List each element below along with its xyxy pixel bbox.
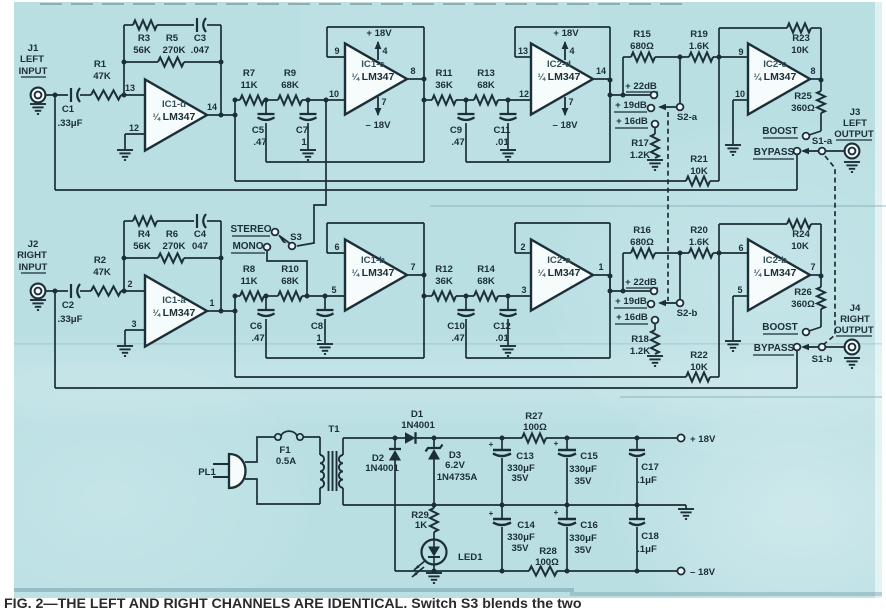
wire IC2-d output xyxy=(593,78,613,83)
svg-text:1K: 1K xyxy=(415,520,427,531)
wire R2 to pin node xyxy=(121,290,145,292)
svg-text:C10: C10 xyxy=(447,321,465,332)
svg-text:C12: C12 xyxy=(493,321,511,332)
svg-text:IC1-c: IC1-c xyxy=(361,59,385,70)
svg-text:.01: .01 xyxy=(495,333,509,344)
resistor R17 xyxy=(630,127,659,161)
svg-text:RIGHT: RIGHT xyxy=(17,250,47,261)
svg-text:5: 5 xyxy=(331,285,336,295)
svg-text:R10: R10 xyxy=(281,264,299,275)
fuse F1 xyxy=(275,431,303,467)
capacitor C14 xyxy=(489,505,536,574)
wire IC1-b feedback top xyxy=(327,223,424,358)
svg-text:¼ LM347: ¼ LM347 xyxy=(352,71,395,83)
wire feedback right vertical xyxy=(219,25,224,115)
svg-text:C11: C11 xyxy=(493,125,511,136)
pin 7 xyxy=(810,262,815,272)
resistor R4 xyxy=(133,216,157,252)
svg-text:R7: R7 xyxy=(243,68,255,79)
resistor R18 xyxy=(630,323,659,357)
wire feedback top path xyxy=(124,24,221,26)
wire mid rail xyxy=(395,503,686,508)
wire IC1-a output xyxy=(207,309,238,314)
svg-text:R23: R23 xyxy=(792,33,810,44)
svg-text:3: 3 xyxy=(131,319,136,329)
capacitor C13 xyxy=(489,438,535,505)
svg-text:330μF: 330μF xyxy=(569,464,597,475)
capacitor C16 xyxy=(554,505,598,574)
capacitor C17 xyxy=(629,438,659,505)
pin 7 xyxy=(410,262,415,272)
node D3 column mid rail xyxy=(432,503,437,508)
resistor R23 xyxy=(787,23,811,56)
svg-text:– 18V: – 18V xyxy=(690,567,716,578)
node S3 tap xyxy=(324,98,329,103)
switch S2-b pole xyxy=(677,300,684,307)
ground under J3 xyxy=(844,162,860,172)
svg-text:.01: .01 xyxy=(495,137,509,148)
node R8 input xyxy=(233,294,238,299)
svg-text:R19: R19 xyxy=(690,29,708,40)
diode D2 xyxy=(365,438,401,571)
resistor R25 xyxy=(791,80,825,114)
svg-text:2: 2 xyxy=(127,279,132,289)
svg-text:1: 1 xyxy=(598,262,603,272)
svg-text:330μF: 330μF xyxy=(507,532,535,543)
svg-text:47K: 47K xyxy=(93,71,111,82)
ground at IC2-b pin 5 xyxy=(725,341,741,351)
pin 6 xyxy=(334,242,339,252)
svg-text:7: 7 xyxy=(410,262,415,272)
wire IC1-c feedback top xyxy=(327,27,424,162)
pin 8 xyxy=(410,66,415,76)
svg-text:C13: C13 xyxy=(516,451,534,462)
pin 5 xyxy=(331,285,336,295)
op-amp IC1-b xyxy=(345,240,407,311)
svg-text:3: 3 xyxy=(521,285,526,295)
svg-text:.47: .47 xyxy=(451,333,464,344)
diode D1 xyxy=(395,409,435,444)
wire bottom rail right xyxy=(557,570,678,572)
svg-text:10K: 10K xyxy=(690,166,708,177)
svg-text:+ 16dB: + 16dB xyxy=(616,116,648,127)
capacitor C2 xyxy=(57,284,82,325)
wire IC2-b output xyxy=(810,274,824,279)
wire MONO to right channel xyxy=(267,251,307,297)
node mono tap xyxy=(305,294,310,299)
svg-text:R21: R21 xyxy=(690,154,708,165)
resistor R7 xyxy=(235,68,278,105)
label S2-b xyxy=(677,308,698,319)
capacitor C11 xyxy=(493,100,516,149)
switch S3 arm xyxy=(278,235,290,244)
svg-text:7: 7 xyxy=(810,262,815,272)
svg-text:.047: .047 xyxy=(191,45,210,56)
svg-text:1: 1 xyxy=(316,333,322,344)
wire R23 rail xyxy=(719,28,821,57)
resistor R26 xyxy=(791,276,825,310)
svg-text:360Ω: 360Ω xyxy=(791,103,815,114)
resistor R22 xyxy=(686,350,719,382)
switch S1-a pole xyxy=(819,148,826,155)
capacitor C3 xyxy=(191,18,210,56)
node feedback junction xyxy=(717,251,722,256)
wire S1-a to J3 xyxy=(825,150,844,152)
switch S1-b arm xyxy=(801,344,819,350)
svg-text:R4: R4 xyxy=(138,229,151,240)
resistor R9 xyxy=(278,68,345,105)
pin 3 xyxy=(521,285,526,295)
svg-text:+ 19dB: + 19dB xyxy=(615,296,647,307)
wire R24 right vertical xyxy=(820,224,822,277)
resistor R3 xyxy=(133,20,157,56)
svg-text:S3: S3 xyxy=(290,232,302,243)
svg-text:S1-b: S1-b xyxy=(812,354,833,365)
wire +22dB tap xyxy=(608,80,651,98)
svg-text:R25: R25 xyxy=(794,91,812,102)
pin 14 xyxy=(207,102,217,112)
capacitor C12 xyxy=(493,296,516,345)
wire S1-b to J4 xyxy=(825,346,844,348)
svg-text:68K: 68K xyxy=(477,80,495,91)
label S2-a xyxy=(677,112,698,123)
wire IC2-a output xyxy=(593,274,613,279)
wire fuse to transformer xyxy=(303,437,320,455)
svg-text:LEFT: LEFT xyxy=(843,118,867,129)
wire pin 12 ground stub xyxy=(125,134,145,149)
wire IC2-d pin 13 stub xyxy=(515,27,531,57)
resistor R12 xyxy=(424,264,474,301)
svg-text:BYPASS: BYPASS xyxy=(754,343,795,354)
svg-text:INPUT: INPUT xyxy=(19,262,48,273)
wire R15 left vertical xyxy=(621,57,626,98)
svg-text:5: 5 xyxy=(737,285,742,295)
svg-text:OUTPUT: OUTPUT xyxy=(834,129,874,140)
svg-text:330μF: 330μF xyxy=(569,533,597,544)
wire C1 to R1 xyxy=(80,94,91,96)
svg-text:4: 4 xyxy=(569,46,574,56)
capacitor C4 xyxy=(192,214,208,252)
svg-text:36K: 36K xyxy=(435,80,453,91)
wire R16 left vertical xyxy=(621,253,626,294)
resistor R20 xyxy=(689,225,748,258)
svg-text:IC1-a: IC1-a xyxy=(162,295,186,306)
svg-text:R9: R9 xyxy=(284,68,296,79)
pin 12 xyxy=(519,89,529,99)
wire feedback left vertical xyxy=(122,25,127,95)
ground under C11 xyxy=(500,150,516,160)
resistor R27 xyxy=(522,411,547,443)
svg-text:10K: 10K xyxy=(791,241,809,252)
wire IC2-a feedback top xyxy=(515,223,610,358)
svg-text:R3: R3 xyxy=(138,33,150,44)
svg-text:10: 10 xyxy=(735,89,745,99)
svg-text:13: 13 xyxy=(518,46,528,56)
svg-text:R12: R12 xyxy=(435,264,453,275)
svg-text:1N4735A: 1N4735A xyxy=(437,472,478,483)
svg-text:BYPASS: BYPASS xyxy=(754,147,795,158)
svg-text:¼ LM347: ¼ LM347 xyxy=(754,71,797,83)
wire LED to bottom rail xyxy=(432,565,437,574)
switch S2-a arm xyxy=(658,104,676,110)
node R tap IC1-c xyxy=(422,98,427,103)
node C5 xyxy=(264,98,269,103)
svg-text:R5: R5 xyxy=(166,33,179,44)
pin 9 xyxy=(738,47,743,57)
pin 13 xyxy=(518,46,528,56)
svg-text:.47: .47 xyxy=(253,137,266,148)
node C10 xyxy=(464,294,469,299)
wire J2 to C2 xyxy=(46,290,69,292)
wire plug to primary bottom xyxy=(245,479,320,504)
switch contact BYPASS xyxy=(794,344,801,351)
resistor R1 xyxy=(91,59,121,100)
wire R25 to boost contact xyxy=(809,113,821,135)
wire bypass feed down from input xyxy=(55,291,797,388)
svg-text:¼ LM347: ¼ LM347 xyxy=(153,111,196,123)
svg-text:1N4001: 1N4001 xyxy=(365,463,399,474)
svg-text:C18: C18 xyxy=(641,531,659,542)
capacitor C9 xyxy=(450,100,475,162)
ground under J4 xyxy=(844,358,860,368)
pin 10 xyxy=(329,89,339,99)
svg-text:+ 18V: + 18V xyxy=(366,28,392,39)
svg-text:.1μF: .1μF xyxy=(637,475,657,486)
wire C2 to R2 xyxy=(80,290,91,292)
svg-text:+ 16dB: + 16dB xyxy=(616,312,648,323)
svg-text:IC2-b: IC2-b xyxy=(763,255,787,266)
svg-text:7: 7 xyxy=(381,97,386,107)
capacitor C1 xyxy=(57,88,82,129)
node C7 xyxy=(306,98,311,103)
svg-text:680Ω: 680Ω xyxy=(630,237,654,248)
svg-text:35V: 35V xyxy=(511,473,529,484)
svg-text:F1: F1 xyxy=(279,445,291,456)
switch S2-b arm xyxy=(658,300,676,306)
power -18V arrow IC1-c xyxy=(365,97,391,131)
pin 1 xyxy=(209,298,214,308)
dashed linkage S2 xyxy=(667,112,669,301)
svg-text:11K: 11K xyxy=(240,276,257,287)
power +18V arrow IC1-c xyxy=(366,28,392,60)
switch S1-b pole xyxy=(819,344,826,351)
svg-text:C17: C17 xyxy=(641,462,659,473)
svg-text:T1: T1 xyxy=(328,424,340,435)
svg-text:+ 22dB: + 22dB xyxy=(625,277,657,288)
switch contact MONO xyxy=(264,244,271,251)
wire IC2-c pin 10 ground stub xyxy=(733,100,748,144)
node C9 xyxy=(464,98,469,103)
op-amp IC1-d xyxy=(145,80,207,151)
svg-text:R6: R6 xyxy=(166,229,178,240)
svg-text:68K: 68K xyxy=(281,80,299,91)
svg-text:C14: C14 xyxy=(517,520,535,531)
svg-text:STEREO: STEREO xyxy=(230,224,271,235)
svg-text:6: 6 xyxy=(334,242,339,252)
wire IC2-d feedback top xyxy=(515,27,610,162)
svg-text:BOOST: BOOST xyxy=(762,126,798,137)
switch contact +16dB xyxy=(652,121,659,128)
svg-text:J4: J4 xyxy=(850,303,861,314)
wire IC1-b output xyxy=(407,273,427,278)
capacitor C10 xyxy=(447,296,474,358)
power +18V arrow IC2-d xyxy=(553,28,579,60)
node D3 top xyxy=(432,436,437,441)
wire secondary top xyxy=(343,438,395,455)
wire S2-b pole vertical xyxy=(679,253,681,300)
label S1-a xyxy=(812,136,833,147)
svg-text:1.6K: 1.6K xyxy=(689,237,709,248)
label +16dB xyxy=(615,312,648,324)
connector J4 RIGHT OUTPUT jack xyxy=(834,303,874,354)
svg-text:R8: R8 xyxy=(243,264,256,275)
wire R22 up to pin node xyxy=(718,253,720,377)
pin 2 xyxy=(127,279,132,289)
switch S3 pole xyxy=(289,243,296,250)
wire IC1-c pin 9 stub xyxy=(327,27,345,57)
svg-text:C1: C1 xyxy=(62,104,75,115)
svg-text:.33μF: .33μF xyxy=(57,314,82,325)
terminal -18V xyxy=(677,567,715,578)
op-amp IC2-b xyxy=(748,240,810,311)
switch contact +19dB xyxy=(648,105,655,112)
ground under C12 xyxy=(500,346,516,356)
capacitor C6 xyxy=(250,296,275,358)
svg-text:8: 8 xyxy=(810,66,815,76)
label +19dB xyxy=(614,296,647,308)
svg-text:J2: J2 xyxy=(28,239,39,250)
svg-text:R28: R28 xyxy=(539,546,557,557)
ground under C7 xyxy=(300,150,316,160)
svg-text:270K: 270K xyxy=(163,45,186,56)
resistor R28 xyxy=(529,546,559,576)
pin 3 xyxy=(131,319,136,329)
svg-text:¼ LM347: ¼ LM347 xyxy=(754,267,797,279)
switch contact +16dB xyxy=(652,317,659,324)
wire bottom rail left xyxy=(395,570,529,572)
op-amp IC2-c xyxy=(748,44,810,115)
svg-text:+ 18V: + 18V xyxy=(690,434,716,445)
svg-text:IC2-c: IC2-c xyxy=(763,59,787,70)
wire inner rail stage B xyxy=(466,161,610,163)
switch contact +22dB xyxy=(651,288,658,295)
svg-text:R2: R2 xyxy=(94,255,106,266)
switch contact BOOST xyxy=(803,133,810,140)
wire feedback left vertical xyxy=(122,221,127,291)
svg-text:35V: 35V xyxy=(511,543,529,554)
terminal +18V xyxy=(677,434,716,445)
svg-text:7: 7 xyxy=(568,97,573,107)
resistor R16 xyxy=(623,225,689,258)
svg-text:¼ LM347: ¼ LM347 xyxy=(538,267,581,279)
svg-text:R15: R15 xyxy=(633,29,651,40)
svg-text:36K: 36K xyxy=(435,276,453,287)
diode D3 zener xyxy=(426,438,478,508)
wire stage coupling vertical xyxy=(234,100,236,181)
svg-text:6.2V: 6.2V xyxy=(445,460,465,471)
svg-text:9: 9 xyxy=(334,46,339,56)
op-amp IC1-c xyxy=(345,44,407,115)
pin 10 xyxy=(735,89,745,99)
ground at IC2-c pin 10 xyxy=(725,145,741,155)
plug PL1 xyxy=(198,454,245,488)
svg-text:.1μF: .1μF xyxy=(637,544,657,555)
svg-text:S2-a: S2-a xyxy=(677,112,698,123)
capacitor C15 xyxy=(554,438,599,505)
capacitor C5 xyxy=(252,100,275,162)
label +22dB xyxy=(625,277,658,288)
capacitor C8 xyxy=(311,296,334,344)
ground under J2 xyxy=(30,300,46,310)
switch contact BOOST xyxy=(803,329,810,336)
wire IC1-b pin 6 stub xyxy=(327,223,345,253)
ground under C8 xyxy=(317,344,333,354)
node C8 xyxy=(323,294,328,299)
svg-text:MONO: MONO xyxy=(232,241,263,252)
resistor R21 xyxy=(686,154,719,186)
label BOOST xyxy=(762,126,798,138)
svg-text:C4: C4 xyxy=(194,229,207,240)
wire R1 to pin node xyxy=(121,94,145,96)
connector J1 LEFT INPUT jack xyxy=(19,43,48,102)
connector J2 RIGHT INPUT jack xyxy=(17,239,47,298)
svg-text:+: + xyxy=(489,509,494,518)
svg-text:C5: C5 xyxy=(252,125,265,136)
resistor R15 xyxy=(623,29,689,62)
switch contact +19dB xyxy=(648,301,655,308)
node R tap IC1-b xyxy=(422,294,427,299)
svg-text:¼ LM347: ¼ LM347 xyxy=(153,307,196,319)
node feedback junction xyxy=(717,55,722,60)
wire top rail to R27 xyxy=(434,436,522,441)
svg-text:C3: C3 xyxy=(194,33,206,44)
svg-text:.47: .47 xyxy=(451,137,464,148)
wire S3 feed from left channel xyxy=(297,100,326,246)
label S1-b xyxy=(812,354,833,365)
capacitor C18 xyxy=(629,505,659,574)
svg-text:– 18V: – 18V xyxy=(365,120,391,131)
ground at IC1-d pin 12 xyxy=(117,150,133,160)
svg-text:R18: R18 xyxy=(631,334,649,345)
wire R21 up to pin node xyxy=(718,57,720,181)
wire IC2-b pin 5 ground stub xyxy=(733,296,748,340)
svg-text:R22: R22 xyxy=(690,350,708,361)
wire IC1-c output xyxy=(407,77,427,82)
svg-text:100Ω: 100Ω xyxy=(535,557,559,568)
svg-text:IC1-b: IC1-b xyxy=(361,255,385,266)
svg-text:1.6K: 1.6K xyxy=(689,41,709,52)
switch S2-a pole xyxy=(677,104,684,111)
svg-text:4: 4 xyxy=(382,46,387,56)
dashed linkage S1 xyxy=(823,156,835,345)
svg-text:+ 18V: + 18V xyxy=(553,28,579,39)
svg-text:047: 047 xyxy=(192,241,208,252)
svg-text:C6: C6 xyxy=(250,321,262,332)
svg-text:C16: C16 xyxy=(580,520,598,531)
svg-text:14: 14 xyxy=(596,66,606,76)
wire J1 to C1 xyxy=(46,94,69,96)
svg-text:35V: 35V xyxy=(574,476,592,487)
wire R27 to +18V xyxy=(546,436,678,441)
svg-text:¼ LM347: ¼ LM347 xyxy=(352,267,395,279)
connector J3 LEFT OUTPUT jack xyxy=(834,107,874,158)
svg-text:+ 22dB: + 22dB xyxy=(625,81,657,92)
svg-text:IC1-d: IC1-d xyxy=(162,99,186,110)
svg-text:J3: J3 xyxy=(850,107,861,118)
resistor R10 xyxy=(278,264,345,301)
wire R26 to boost contact xyxy=(809,309,821,331)
svg-text:J1: J1 xyxy=(28,43,39,54)
